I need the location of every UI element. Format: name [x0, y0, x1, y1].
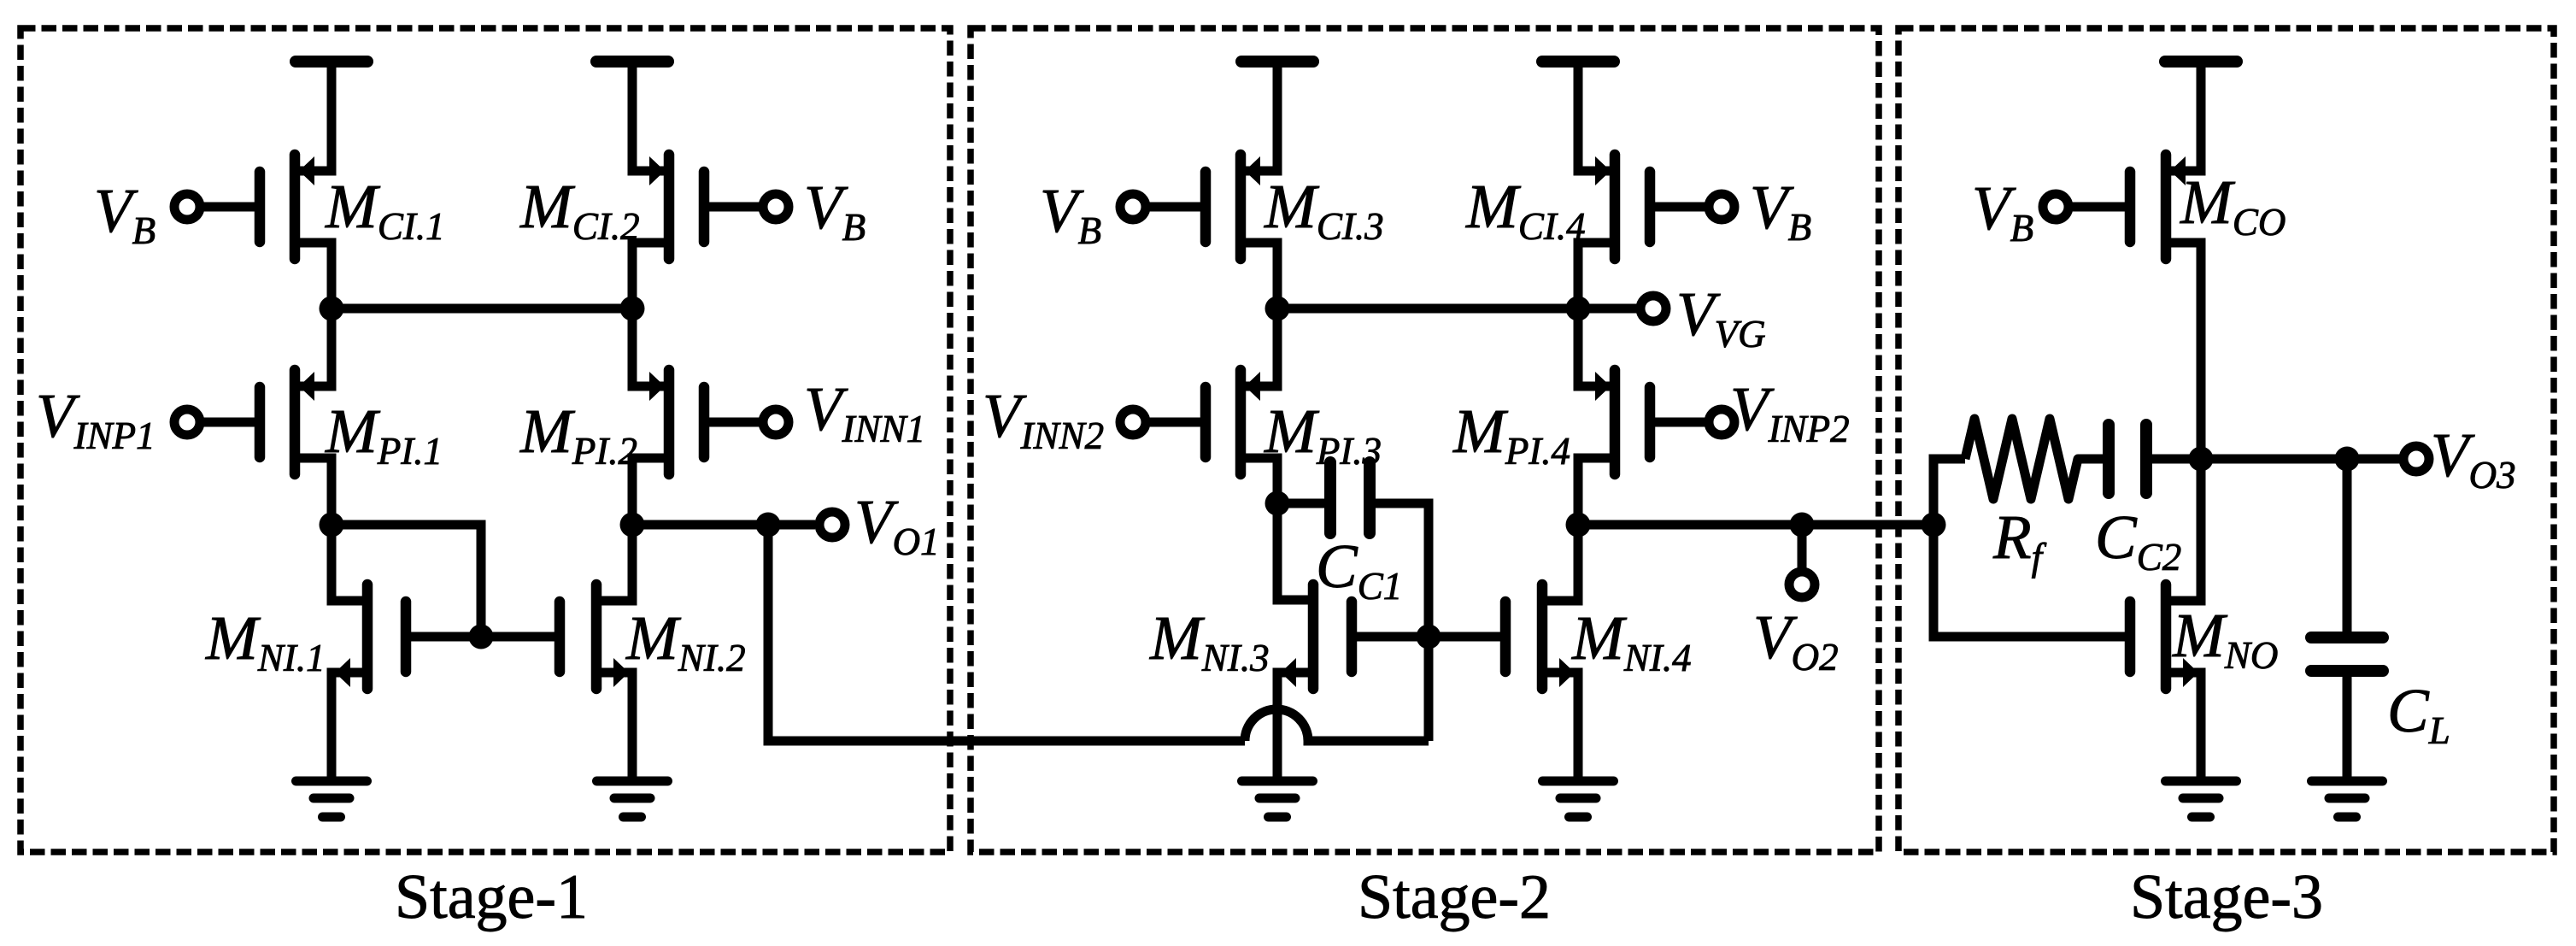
svg-text:Stage-2: Stage-2 — [1358, 862, 1551, 932]
wire M_CI.2 gate to V_B — [708, 203, 763, 212]
junction V_O2 terminal stub — [1790, 513, 1815, 538]
ground (M_NO source) — [2166, 781, 2237, 817]
transistor M_CI.1 (PMOS cascode) — [260, 155, 314, 259]
wire NMOS gate rail M_NI.1 to M_NI.2 — [406, 632, 560, 642]
wire M_CO drain / node V_O3 / M_NO drain — [2166, 243, 2201, 601]
wire V_INP1 to M_PI.1 gate — [200, 418, 255, 427]
transistor M_NI.3 (NMOS) — [1281, 585, 1352, 689]
wire M_PI.2 drain / node V_O1 / M_NI.2 drain — [596, 458, 669, 601]
terminal V_INP1 — [174, 409, 200, 435]
node B junction (mirror gate node) — [320, 513, 344, 538]
node V_O2 junction at drain — [1566, 513, 1591, 538]
transistor M_CO (PMOS output) — [2130, 155, 2186, 259]
transistor M_PI.1 (PMOS input) — [260, 370, 314, 474]
wire V_B to M_CO gate — [2068, 203, 2126, 212]
wire node V_O2 to stage-3 — [1578, 520, 1933, 530]
transistor M_CI.3 (PMOS cascode) — [1206, 155, 1260, 259]
terminal V_VG — [1640, 296, 1666, 321]
capacitor C_L — [2311, 638, 2383, 671]
svg-text:Stage-1: Stage-1 — [395, 862, 588, 932]
transistor M_NO (NMOS output) — [2130, 585, 2198, 689]
VDD supply bar (stage-2 left) — [1241, 56, 1313, 68]
terminal V_O1 — [819, 512, 845, 538]
ground (M_NI.1 source) — [296, 781, 367, 817]
wire feedforward hop over M_NI.3 source — [1245, 709, 1429, 741]
terminal V_B (stage-2 left) — [1120, 194, 1146, 220]
wire V_B to M_CI.1 gate — [200, 203, 255, 212]
wire stub to V_O2 terminal — [1798, 525, 1807, 569]
wire M_CI.1 drain / node A / M_PI.1 source — [295, 243, 332, 386]
transistor M_NI.1 (NMOS mirror) — [335, 585, 406, 689]
wire C_C2 to V_O3 terminal — [2152, 455, 2403, 464]
wire C_L to ground — [2343, 675, 2352, 777]
node A junction right — [620, 297, 645, 321]
wire M_CI.4 drain / node C / M_PI.4 source — [1578, 243, 1615, 386]
junction output node to C_L — [2335, 447, 2360, 472]
capacitor C_C2 — [2109, 425, 2146, 493]
wire node V_O1 horizontal — [632, 520, 815, 530]
wire M_PI.4 drain / node V_O2 / M_NI.4 drain — [1542, 458, 1615, 601]
ground (M_NI.4 source) — [1543, 781, 1614, 817]
svg-text:Stage-3: Stage-3 — [2130, 862, 2323, 932]
wire V_O2 node down to M_NO gate — [1933, 525, 2126, 637]
wire M_PI.4 gate to V_INP2 — [1654, 418, 1709, 427]
terminal V_B (stage-3) — [2043, 194, 2068, 220]
terminal V_O3 — [2403, 446, 2429, 472]
wire V_O2 node up to R_f — [1933, 459, 1965, 525]
terminal V_O2 — [1789, 572, 1815, 597]
transistor M_NI.4 (NMOS) — [1505, 585, 1575, 689]
node V_O1 junction at drain — [620, 513, 645, 538]
transistor M_PI.2 (PMOS input) — [649, 370, 704, 474]
wire node D to C_C1 left plate — [1277, 499, 1324, 508]
wire M_CI.2 drain / node A / M_PI.2 source — [632, 243, 669, 386]
VDD supply bar (stage-1 right) — [596, 56, 668, 68]
terminal V_INN2 — [1120, 409, 1146, 435]
wire M_CI.1 source to VDD — [295, 62, 332, 171]
ground (C_L) — [2312, 781, 2383, 817]
transistor M_NI.2 (NMOS mirror) — [560, 585, 629, 689]
wire M_CI.4 source to VDD — [1578, 62, 1615, 171]
wire NMOS gate rail M_NI.3 to M_NI.4 — [1352, 632, 1505, 642]
junction gate rail / C_C1 / feedforward — [1417, 625, 1441, 649]
Stage-3 dashed border box — [1898, 28, 2554, 852]
wire M_CI.2 source to VDD — [632, 62, 669, 171]
wire node B to NMOS gate rail — [332, 525, 481, 637]
node A junction left — [320, 297, 344, 321]
terminal V_INP2 — [1709, 409, 1734, 435]
wire V_INN2 to M_PI.3 gate — [1146, 418, 1201, 427]
capacitor C_C1 — [1330, 462, 1370, 533]
resistor R_f (zigzag) — [1965, 419, 2104, 499]
VDD supply bar (stage-3) — [2165, 56, 2237, 68]
wire node C horizontal to V_VG — [1277, 304, 1637, 314]
junction on NMOS gate rail — [469, 625, 494, 649]
wire M_NI.1 source to ground — [332, 673, 367, 777]
terminal V_INN1 — [763, 409, 789, 435]
ground (M_NI.3 source) — [1242, 781, 1313, 817]
wire M_CO source to VDD — [2166, 62, 2201, 171]
Stage-1 dashed border box — [21, 28, 950, 852]
node C junction left — [1265, 297, 1290, 321]
node V_O2 entry junction (stage-3) — [1922, 513, 1946, 538]
wire C_C1 right plate down to feedforward wire — [1376, 503, 1429, 741]
wire M_NI.2 source to ground — [596, 673, 632, 777]
node D junction (M_PI.3 drain, C_C1) — [1265, 491, 1290, 516]
junction V_O1 to feedforward — [756, 513, 781, 538]
wire M_CI.3 source to VDD — [1241, 62, 1277, 171]
transistor M_CI.4 (PMOS cascode) — [1595, 155, 1650, 259]
wire M_NI.4 source to ground — [1542, 673, 1578, 777]
wire M_CI.4 gate to V_B — [1654, 203, 1709, 212]
wire feedforward V_O1 down and right — [768, 525, 1245, 741]
terminal V_B (stage-1 right) — [763, 194, 789, 220]
wire V_B to M_CI.3 gate — [1146, 203, 1201, 212]
wire output node down to C_L — [2343, 459, 2352, 632]
transistor M_CI.2 (PMOS cascode) — [649, 155, 704, 259]
node C junction right — [1566, 297, 1591, 321]
wire M_PI.1 drain / node B / M_NI.1 drain — [295, 458, 367, 601]
wire node A horizontal — [332, 304, 632, 314]
wire M_PI.2 gate to V_INN1 — [708, 418, 763, 427]
Stage-2 dashed border box — [971, 28, 1879, 852]
wire M_NO source to ground — [2166, 673, 2201, 777]
terminal V_B (stage-1 left) — [174, 194, 200, 220]
wire M_PI.3 drain / node D / M_NI.3 drain — [1241, 458, 1313, 600]
ground (M_NI.2 source) — [597, 781, 668, 817]
wire M_NI.3 source to ground — [1277, 673, 1313, 777]
transistor M_PI.3 (PMOS input) — [1206, 370, 1260, 474]
node V_O3 junction center — [2189, 447, 2214, 472]
VDD supply bar (stage-2 right) — [1542, 56, 1614, 68]
VDD supply bar (stage-1 left) — [296, 56, 367, 68]
wire M_CI.3 drain / node C / M_PI.3 source — [1241, 243, 1277, 386]
terminal V_B (stage-2 right) — [1709, 194, 1734, 220]
transistor M_PI.4 (PMOS input) — [1595, 370, 1650, 474]
